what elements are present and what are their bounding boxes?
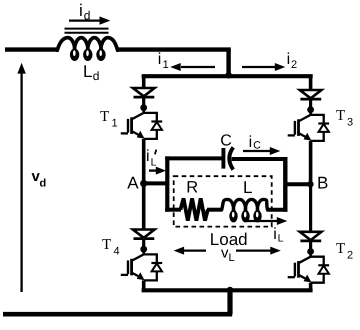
wire: right bridge leg from top rail to T3 <box>309 76 313 90</box>
T3 antiparallel diode branch <box>311 115 324 123</box>
wire: top DC rail right segment to riser corner <box>117 47 231 51</box>
svg-text:d: d <box>40 178 47 190</box>
wire: capacitor branch right wire <box>232 157 288 161</box>
wire: capacitor branch left wire <box>165 156 222 160</box>
T1 series diode <box>133 88 155 96</box>
node dot at T1 collector <box>140 104 147 111</box>
arrow vd (source voltage) <box>20 73 22 292</box>
transistor T3 (series diode + IGBT + antiparallel diode) <box>288 90 329 141</box>
svg-text:i: i <box>158 51 162 68</box>
node dot at T3 collector <box>307 106 314 113</box>
arrow i1 (pointing left) <box>181 66 215 68</box>
node: junction dot on bridge bottom rail <box>227 287 234 294</box>
svg-text:A: A <box>127 174 139 193</box>
svg-text:L: L <box>151 157 157 169</box>
svg-text:T: T <box>100 109 109 125</box>
svg-text:i: i <box>249 134 253 151</box>
wire: T3 emitter to node B <box>309 141 313 184</box>
T1 IGBT body <box>142 108 145 113</box>
inductor L (load) <box>222 199 268 214</box>
svg-text:Load: Load <box>210 230 248 249</box>
T3 gate lead <box>288 134 295 136</box>
arrow iC <box>243 150 272 152</box>
svg-text:T: T <box>102 237 111 253</box>
T4 IGBT body <box>142 249 145 254</box>
transistor T2 (series diode + IGBT + antiparallel diode) <box>288 232 329 283</box>
T2 series diode <box>300 232 322 240</box>
svg-text:d: d <box>84 9 91 23</box>
wire: T4 emitter to bridge bottom rail <box>142 280 146 290</box>
transistor T4 (series diode + IGBT + antiparallel diode) <box>121 230 162 281</box>
transistor T1 (series diode + IGBT + antiparallel diode) <box>121 88 162 139</box>
wire: diode cathode to IGBT collector node <box>142 239 145 250</box>
load dashed box <box>174 176 272 226</box>
wire: diode cathode to IGBT collector node <box>309 99 312 110</box>
T1 antiparallel diode branch <box>144 113 157 121</box>
svg-text:B: B <box>317 174 328 193</box>
svg-text:C: C <box>220 133 232 150</box>
T3 series diode <box>300 90 322 98</box>
T1 gate lead <box>121 132 128 134</box>
wire: diode cathode to IGBT collector node <box>309 241 312 252</box>
wire: drop from bridge bottom rail to bottom return rail <box>227 290 232 314</box>
svg-text:d: d <box>93 69 100 83</box>
wire: T1 emitter to node A <box>142 139 146 184</box>
wire: bridge top rail <box>142 74 313 78</box>
capacitor C right plate (curved) <box>229 147 233 169</box>
arrow iL (load current) <box>247 220 279 222</box>
T2 antiparallel diode branch <box>311 257 324 265</box>
T2 emitter with arrow <box>299 275 308 280</box>
svg-text:1: 1 <box>112 118 118 130</box>
arrow iL' <box>149 169 158 171</box>
svg-text:R: R <box>186 179 198 197</box>
svg-text:1: 1 <box>163 59 169 71</box>
node dot at T2 collector <box>307 248 314 255</box>
arrow id (current direction) <box>69 19 102 21</box>
wire: right leg node B down to T2 <box>309 184 312 232</box>
svg-text:T: T <box>336 108 345 124</box>
capacitor C left plate <box>221 148 225 169</box>
svg-text:C: C <box>253 140 261 152</box>
T4 series diode <box>133 230 155 238</box>
arrow i2 (pointing right) <box>242 66 277 68</box>
svg-text:L: L <box>278 233 284 245</box>
T4 emitter with arrow <box>132 273 141 278</box>
node B dot <box>307 181 313 187</box>
T4 antiparallel diode branch <box>144 254 157 262</box>
svg-text:4: 4 <box>114 246 120 258</box>
wire: tank right rail <box>283 157 287 212</box>
T3 IGBT body <box>309 110 312 115</box>
svg-text:i: i <box>146 148 150 165</box>
T2 IGBT body <box>309 252 312 257</box>
inductor Ld <box>57 38 117 53</box>
inductor Ld core bars <box>65 28 109 30</box>
node dot at T4 collector <box>140 246 147 253</box>
arrow vL right <box>236 249 273 251</box>
svg-text:2: 2 <box>291 59 297 71</box>
svg-text:2: 2 <box>347 250 353 262</box>
svg-text:L: L <box>229 252 235 264</box>
node: junction dot on bridge top rail <box>225 72 232 79</box>
wire: left leg node A down to T4 <box>142 183 146 229</box>
node A dot <box>140 180 147 187</box>
wire: tank left rail (node A to C and RL branches) <box>165 156 169 211</box>
T4 gate lead <box>121 274 128 276</box>
wire: tank right rail to node B <box>285 182 310 186</box>
svg-text:L: L <box>83 62 92 81</box>
wire: top DC rail left segment <box>5 47 59 51</box>
wire: T2 emitter to bridge bottom rail <box>309 283 313 291</box>
svg-text:i: i <box>273 226 277 243</box>
svg-text:i: i <box>79 1 83 20</box>
wire: riser from top rail down to bridge top rail <box>226 50 230 77</box>
svg-text:T: T <box>336 241 345 257</box>
wire: bridge bottom rail <box>142 288 313 292</box>
svg-text:i: i <box>287 51 291 68</box>
T1 emitter with arrow <box>132 131 141 136</box>
wire: left bridge leg from top rail to T1 <box>142 76 146 88</box>
wire: bottom DC return rail <box>3 312 232 317</box>
resistor R <box>181 198 208 220</box>
svg-text:L: L <box>243 178 252 197</box>
wire: RL branch left wire <box>165 208 181 212</box>
wire: R to L <box>207 208 223 212</box>
wire: L to tank right rail <box>267 208 288 212</box>
wire: node A to tank left rail <box>144 181 168 185</box>
svg-text:3: 3 <box>347 117 353 129</box>
T3 emitter with arrow <box>299 133 308 138</box>
arrow vL left <box>181 249 206 251</box>
wire: diode cathode to IGBT collector node <box>142 97 145 108</box>
T2 gate lead <box>288 276 295 278</box>
